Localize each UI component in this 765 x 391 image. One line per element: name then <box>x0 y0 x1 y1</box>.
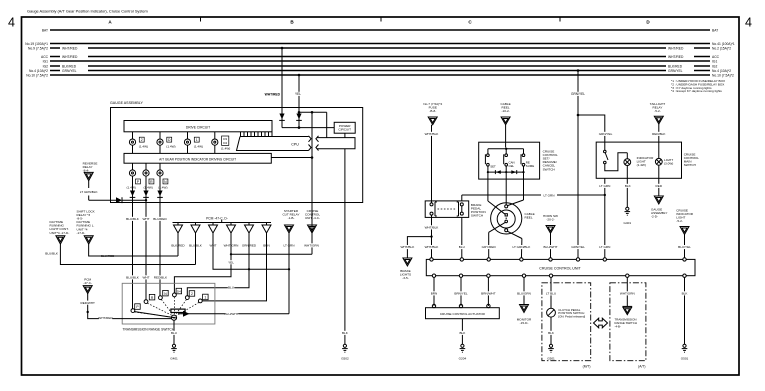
node BAT bus <box>42 29 718 33</box>
svg-text:IG1: IG1 <box>43 60 48 64</box>
wire WHT/RED to pivot <box>80 293 171 320</box>
connector PCM pin BLU/BLK <box>189 223 203 248</box>
wire GRN/YEL branch to main switch <box>578 115 613 142</box>
wire WHT/BLK fuse to brake switch <box>425 125 440 201</box>
switch cruise set/resume/cancel box <box>479 142 558 179</box>
lamp illumination light main switch <box>655 142 673 165</box>
connector PCM pin WHT <box>209 223 218 248</box>
svg-text:BLU: BLU <box>228 286 234 290</box>
wire RED/BLK taillight to main switch <box>652 124 666 142</box>
node No.9 WHT/RED bus <box>28 47 731 51</box>
svg-text:ACC: ACC <box>41 55 49 59</box>
svg-text:BLK/RED: BLK/RED <box>668 65 683 69</box>
svg-text:-1-B-: -1-B- <box>288 216 295 220</box>
wire starter cut relay LT GRN down <box>288 233 290 314</box>
svg-text:4: 4 <box>745 16 752 30</box>
svg-text:WHT/BLK: WHT/BLK <box>425 226 440 230</box>
connector daytime running light unit label <box>50 220 70 244</box>
svg-text:LT BLU: LT BLU <box>546 292 556 296</box>
lamp D3 (1.4W) <box>157 132 176 154</box>
svg-text:-2-D-: -2-D- <box>651 215 658 219</box>
node IG2 BLK/RED bus <box>43 65 718 69</box>
svg-text:No.4 (10A)*2: No.4 (10A)*2 <box>29 69 48 73</box>
svg-text:CRUISE CONTROL ACTUATOR: CRUISE CONTROL ACTUATOR <box>440 312 486 316</box>
svg-text:No.4 (10A)*2: No.4 (10A)*2 <box>712 69 731 73</box>
column tick 2 <box>380 17 382 22</box>
svg-text:GAUGE ASSEMBLY: GAUGE ASSEMBLY <box>110 101 143 105</box>
svg-text:BLK: BLK <box>342 331 349 335</box>
wire BLK actuator to ground <box>459 319 466 344</box>
wire bold BLU/WHT rotor output <box>178 311 289 317</box>
wire LT GRN horizontal <box>462 193 606 197</box>
svg-text:IG2: IG2 <box>712 65 717 69</box>
wire GRN/YEL drop from No.4 bus <box>571 69 585 259</box>
wire connector to ground G502 run <box>344 149 346 344</box>
svg-text:GRN/YEL: GRN/YEL <box>668 69 683 73</box>
svg-text:*4 : Except KY daytime running: *4 : Except KY daytime running lights <box>671 89 722 93</box>
switch brake pedal position box <box>425 201 485 218</box>
node IG1 bus <box>43 60 718 64</box>
svg-text:SWITCH: SWITCH <box>543 167 555 171</box>
svg-text:-4-B-: -4-B- <box>615 324 621 328</box>
svg-text:4: 4 <box>8 16 15 30</box>
switch brake pedal internals <box>430 201 463 218</box>
wire rotor dashed N <box>161 299 173 314</box>
label wire BLU/RED upper <box>153 217 167 221</box>
svg-text:(1.4W): (1.4W) <box>166 145 175 149</box>
wire PCM BLU/BLK down <box>195 233 197 265</box>
svg-text:(1.4W): (1.4W) <box>139 145 148 149</box>
svg-text:BLU/RED: BLU/RED <box>153 217 167 221</box>
label range wire BLU/BLK <box>126 275 140 279</box>
assembly M/T dash-dot box <box>542 283 591 369</box>
svg-text:WHT/RED: WHT/RED <box>62 47 78 51</box>
svg-text:WHT/GRN: WHT/GRN <box>304 244 319 248</box>
svg-text:G501: G501 <box>547 357 555 361</box>
wire WHT/GRN cruise unit to range switch ref <box>615 277 637 328</box>
svg-text:(1.4W): (1.4W) <box>144 185 153 189</box>
node No.4 GRN/YEL bus <box>29 69 731 73</box>
switch internals set/resume <box>485 148 534 180</box>
svg-text:-20-2-: -20-2- <box>546 217 554 221</box>
svg-text:No.41 (100A)*1: No.41 (100A)*1 <box>712 42 735 46</box>
svg-text:BLU/BLK: BLU/BLK <box>45 251 59 255</box>
svg-text:-47-C-: -47-C- <box>83 281 92 285</box>
lamp D4 (1.4W) <box>129 132 148 154</box>
wire CPU gap vertical <box>311 112 314 254</box>
wire WHT/GRN cross harness <box>231 253 312 255</box>
column tick 1 <box>200 17 202 22</box>
svg-text:-15-D-: -15-D- <box>520 321 529 325</box>
node cruise unit top pins <box>430 258 686 261</box>
svg-text:CPU: CPU <box>291 142 299 146</box>
node cruise unit bottom pins <box>432 274 686 277</box>
lamp R (1.4W) <box>143 163 154 189</box>
svg-text:GRN/YEL: GRN/YEL <box>571 92 585 96</box>
wire BRN/YEL cruise unit to actuator <box>454 277 468 307</box>
lamp indicator light main switch <box>624 156 654 167</box>
connector gauge assembly 2-D <box>651 196 667 219</box>
node No.19 bus <box>25 42 735 46</box>
svg-text:RED/BLK: RED/BLK <box>652 132 666 136</box>
connector cable reel top <box>501 102 511 125</box>
svg-text:PCM -47-C, D-: PCM -47-C, D- <box>206 216 228 220</box>
ground G204 <box>459 344 467 360</box>
connector PCM 47-C left <box>83 277 92 293</box>
svg-text:2: 2 <box>191 292 193 296</box>
svg-text:BLK: BLK <box>682 292 689 296</box>
svg-text:(A/T): (A/T) <box>638 365 645 369</box>
svg-text:WHT: WHT <box>142 217 149 221</box>
svg-text:A/T GEAR POSITION INDICATOR DR: A/T GEAR POSITION INDICATOR DRIVING CIRC… <box>159 157 236 161</box>
wire BLU/YEL cruise indicator to unit <box>678 235 692 260</box>
svg-text:CEL: CEL <box>509 164 515 168</box>
svg-text:WHT/RED: WHT/RED <box>98 316 113 320</box>
svg-text:RED/WHT: RED/WHT <box>80 301 95 305</box>
svg-text:(M/T): (M/T) <box>583 365 591 369</box>
wire BLU/BLK from DRL unit <box>45 244 195 264</box>
svg-text:BLU: BLU <box>459 245 465 249</box>
svg-text:WHT/BLK: WHT/BLK <box>401 245 416 249</box>
wire LT GRN/BLK cable reel to cruise unit <box>507 231 531 259</box>
connector right box <box>316 136 355 151</box>
assembly A/T dash-dot box <box>610 283 646 369</box>
wire BLK main switch to ground <box>625 166 632 208</box>
wire BLU/RED from shift lock relay <box>89 244 178 258</box>
svg-text:DRIVE CIRCUIT: DRIVE CIRCUIT <box>186 125 210 129</box>
wire PCM GRN/RED BLU to 2 contact <box>187 233 249 296</box>
connector PCM pin BRN <box>262 223 271 248</box>
wire driving circuit to CPU vertical <box>271 157 312 159</box>
wire rotor dashed R <box>147 303 172 315</box>
svg-text:WHT/BLK: WHT/BLK <box>425 132 440 136</box>
connector cruise control unit 4-C <box>304 209 320 248</box>
svg-text:BAT: BAT <box>42 29 48 33</box>
svg-text:G502: G502 <box>341 357 349 361</box>
ground G401 main switch <box>624 207 632 225</box>
wire BLK range switch to ground G502 <box>342 331 349 335</box>
node MT AT selector arrow <box>594 318 608 328</box>
svg-text:SWITCH: SWITCH <box>471 214 483 218</box>
svg-text:GRN/YEL: GRN/YEL <box>62 69 77 73</box>
node 2 contact <box>185 291 194 300</box>
svg-text:GRN/YEL: GRN/YEL <box>571 245 585 249</box>
svg-text:-3-5-: -3-5- <box>402 276 409 280</box>
node R contact <box>144 294 155 303</box>
svg-text:(1.4W): (1.4W) <box>221 147 230 151</box>
node D4 contact <box>173 288 182 297</box>
ground G501 right <box>681 344 689 360</box>
wire BLU brake switch to cruise unit <box>459 195 466 259</box>
svg-text:D4: D4 <box>223 141 227 145</box>
svg-text:-5-2-: -5-2- <box>676 219 683 223</box>
svg-text:WHT/RED: WHT/RED <box>265 93 281 97</box>
wire brake switch to brake lights <box>401 217 440 258</box>
cable reel spiral <box>491 203 535 234</box>
wire gauge internal branch to connector <box>298 111 327 138</box>
ground G501 MT <box>547 344 555 360</box>
node rotor pivot <box>171 315 176 320</box>
fuse No.7 connector <box>423 102 442 125</box>
node P contact <box>131 304 140 313</box>
power circuit box <box>334 122 355 133</box>
svg-text:BLK: BLK <box>625 184 632 188</box>
svg-text:G501: G501 <box>681 357 689 361</box>
wire rotor dashed P <box>134 312 170 317</box>
switch rotor bar <box>171 309 185 312</box>
svg-text:IG2: IG2 <box>43 65 48 69</box>
connector PCM pin GRN/RED <box>242 223 257 248</box>
svg-text:UNIT -4-C-: UNIT -4-C- <box>305 216 320 220</box>
svg-text:BLK: BLK <box>548 331 555 335</box>
svg-text:GRN/YEL: GRN/YEL <box>599 132 613 136</box>
svg-text:BLK: BLK <box>459 331 466 335</box>
comb connector marks <box>241 132 273 137</box>
svg-text:TRANSMISSION RANGE SWITCH: TRANSMISSION RANGE SWITCH <box>123 328 175 332</box>
svg-text:Gauge Assembly (A/T Gear Posit: Gauge Assembly (A/T Gear Position Indica… <box>27 9 148 14</box>
svg-text:No.9 (7.5A)*2: No.9 (7.5A)*2 <box>28 47 48 51</box>
svg-text:LT GRN/BLK: LT GRN/BLK <box>80 190 99 194</box>
svg-text:SWITCH: SWITCH <box>684 163 696 167</box>
svg-text:-17-D-: -17-D- <box>77 231 86 235</box>
wire lamp P to range switch <box>130 176 136 309</box>
label wire WHT upper <box>143 217 150 221</box>
wire PCM BRN to 1 contact <box>202 233 266 301</box>
wire BLK clutch switch to ground <box>548 317 555 344</box>
svg-text:GRY/RED: GRY/RED <box>482 245 497 249</box>
wire power circuit to connector <box>344 133 346 137</box>
svg-text:(1.4W): (1.4W) <box>637 163 646 167</box>
switch S1 transmission range switch box <box>122 283 215 331</box>
switch cruise control main switch box <box>596 142 699 178</box>
node 1 contact <box>198 294 208 303</box>
svg-text:G204: G204 <box>459 357 467 361</box>
op-amp CPU box <box>237 136 312 151</box>
svg-text:WHT/RED: WHT/RED <box>668 55 684 59</box>
wire reverse relay LT GRN/BLK <box>79 181 116 201</box>
wire YEL drop from No.10 bus <box>295 74 302 128</box>
wire BLK cruise unit right to ground <box>681 277 688 344</box>
motor cruise control actuator box <box>426 308 500 319</box>
wire PCM BLK/RED down <box>177 233 179 256</box>
svg-text:YEL: YEL <box>228 260 234 264</box>
wire BRN/WHT cruise unit to actuator <box>481 277 496 307</box>
svg-text:G401: G401 <box>624 221 632 225</box>
node N contact <box>159 290 169 299</box>
svg-text:ACC: ACC <box>712 55 720 59</box>
relay REVERSE RELAY connector <box>83 162 98 181</box>
svg-text:(1.4W): (1.4W) <box>194 145 203 149</box>
wire rotor dashed D4 <box>173 297 175 315</box>
cruise control unit box <box>426 259 695 275</box>
svg-text:No.10 (7.5A)*2: No.10 (7.5A)*2 <box>712 74 734 78</box>
svg-text:-10-2-: -10-2- <box>501 109 509 113</box>
connector PCM pin WHT/GRN <box>224 223 239 248</box>
label range wire RED/BLK <box>154 275 168 279</box>
wire cable reel to set switch <box>505 125 507 148</box>
lamp 2 (1.4W) <box>184 132 203 154</box>
svg-text:No.2 (15A)*2: No.2 (15A)*2 <box>712 47 731 51</box>
connector shift lock relay label <box>77 209 96 244</box>
connector horn switch <box>543 214 558 234</box>
wire BRN cruise unit to actuator <box>431 277 438 307</box>
switch main switch internals <box>604 142 628 171</box>
svg-text:CRUISE CONTROL UNIT: CRUISE CONTROL UNIT <box>539 267 581 271</box>
drive circuit box <box>124 121 272 132</box>
wire WHT/RED drop from No.9 bus <box>265 47 285 128</box>
svg-text:BLU/BLK: BLU/BLK <box>126 276 140 280</box>
svg-text:(1.4W): (1.4W) <box>127 185 136 189</box>
svg-text:RED: RED <box>656 184 663 188</box>
svg-text:1: 1 <box>196 138 198 142</box>
switch arm from P <box>134 312 177 319</box>
relay taillight connector <box>650 102 666 124</box>
connector starter cut relay <box>282 209 299 248</box>
svg-text:REEL: REEL <box>525 215 533 219</box>
connector cruise indicator light <box>676 208 693 234</box>
svg-text:BLU/WHT: BLU/WHT <box>544 245 558 249</box>
wire RED main switch to gauge <box>656 165 663 196</box>
node No.10 bus <box>26 74 734 78</box>
svg-text:SUME: SUME <box>526 164 534 168</box>
svg-text:-5-2-: -5-2- <box>654 109 661 113</box>
svg-text:D4: D4 <box>177 290 181 294</box>
svg-text:BAT: BAT <box>712 29 718 33</box>
wire set switch into cable reel left <box>488 179 508 216</box>
wire gauge internal feed to power circuit <box>282 126 334 129</box>
label wire BLU/BLK upper <box>126 217 140 221</box>
wire GRY/RED cable reel to cruise unit <box>482 222 506 259</box>
svg-text:G401: G401 <box>170 357 178 361</box>
svg-text:BLU/WHT: BLU/WHT <box>225 312 239 316</box>
svg-text:WHT/RED: WHT/RED <box>62 55 78 59</box>
diode D1 <box>116 197 147 203</box>
svg-text:BLK/RED: BLK/RED <box>62 65 77 69</box>
connector PCM bracket <box>173 216 272 222</box>
wire LT GRN main switch down <box>599 178 611 259</box>
wire BLU/GRN cruise unit to monitor connector <box>517 277 532 325</box>
svg-text:[ON: Pedal released]: [ON: Pedal released] <box>558 315 585 319</box>
svg-text:BLU/YEL: BLU/YEL <box>678 245 691 249</box>
svg-text:BRN: BRN <box>431 292 438 296</box>
svg-text:BLU/GRN: BLU/GRN <box>517 292 531 296</box>
svg-text:SET: SET <box>490 164 496 168</box>
svg-text:No.19 (100A)*1: No.19 (100A)*1 <box>25 42 48 46</box>
svg-text:1: 1 <box>204 296 206 300</box>
wire PCM WHT down to harness <box>213 233 290 270</box>
lamp N (1.4W) <box>157 163 168 189</box>
column tick 3 <box>559 17 561 22</box>
svg-text:LT GRN: LT GRN <box>599 245 610 249</box>
connector PCM pin BLK/RED <box>171 223 185 248</box>
svg-text:WHT: WHT <box>142 276 149 280</box>
wire LT BLU cruise unit to clutch switch <box>545 277 557 308</box>
svg-text:BLU: BLU <box>171 331 177 335</box>
svg-text:-B-8-: -B-8- <box>429 109 436 113</box>
svg-text:WHT/RED: WHT/RED <box>668 47 684 51</box>
wire WHT/BLK brake switch to cruise unit <box>425 234 440 260</box>
svg-text:BLU/BLK: BLU/BLK <box>126 217 140 221</box>
wire PCM WHT/GRN YEL to D4 contact <box>174 233 234 293</box>
A/T gear position indicator driving circuit box <box>124 153 271 163</box>
svg-text:BRN/YEL: BRN/YEL <box>454 292 468 296</box>
svg-text:2: 2 <box>141 138 143 142</box>
svg-text:IG1: IG1 <box>712 60 717 64</box>
lamp P (1.4W) <box>127 163 141 189</box>
switch clutch pedal position <box>547 308 586 319</box>
ground G401 range switch <box>170 344 178 360</box>
wire lamp R to range switch <box>143 176 149 300</box>
svg-text:UNIT*4 -17-D-: UNIT*4 -17-D- <box>50 231 70 235</box>
wire lamp N to range switch <box>157 176 163 296</box>
wire set switch into cable reel right <box>505 179 524 208</box>
svg-text:RED/BLK: RED/BLK <box>154 276 168 280</box>
svg-text:BRN/WHT: BRN/WHT <box>481 292 496 296</box>
wire BLU/WHT horn to cruise unit <box>544 233 558 259</box>
svg-text:LT GRN/BLK: LT GRN/BLK <box>513 245 532 249</box>
node ACC WHT/RED bus <box>41 55 720 59</box>
svg-text:No.10 (7.5A)*2: No.10 (7.5A)*2 <box>26 74 48 78</box>
lamp 1 (1.4W) <box>212 132 231 154</box>
wire rotor dashed 2 <box>176 299 187 314</box>
svg-text:(3.0W): (3.0W) <box>664 161 673 165</box>
svg-text:CIRCUIT: CIRCUIT <box>338 128 351 132</box>
wire rotor dashed 1 <box>177 302 200 315</box>
footnotes <box>671 79 725 93</box>
svg-text:LT GRN: LT GRN <box>543 193 554 197</box>
ground G502 <box>341 344 349 360</box>
svg-text:LT GRN: LT GRN <box>599 184 610 188</box>
svg-text:WHT/BLK: WHT/BLK <box>425 245 440 249</box>
gauge assembly U1 box <box>110 101 363 203</box>
label range wire WHT <box>143 275 150 279</box>
svg-text:WHT/GRN: WHT/GRN <box>620 292 635 296</box>
wire set switch into cable reel center <box>505 179 508 232</box>
svg-text:YEL: YEL <box>295 92 301 96</box>
connector brake lights <box>400 258 412 280</box>
wire range switch BLU to ground <box>171 320 178 344</box>
